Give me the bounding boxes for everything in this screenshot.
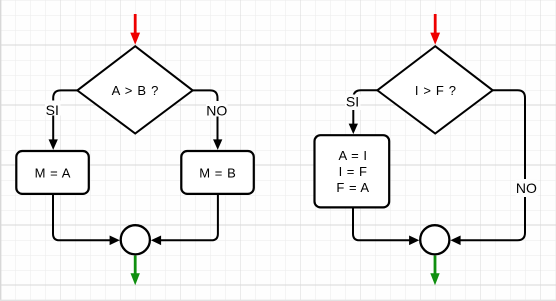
- wire: diamond left vertex to swap box: [349, 90, 378, 134]
- wire: diamond left vertex to box M=A: [49, 90, 78, 149]
- start arrow (red, right chart): [430, 14, 440, 45]
- svg-text:NO: NO: [516, 180, 537, 196]
- decision diamond "I > F ?": [377, 46, 492, 133]
- svg-text:SI: SI: [46, 102, 59, 118]
- wire: diamond right vertex to box M=B: [193, 90, 223, 149]
- process box "M = B": [181, 151, 254, 194]
- svg-text:NO: NO: [206, 102, 227, 118]
- process box "M = A": [16, 151, 89, 194]
- decision diamond "A > B ?": [77, 46, 192, 133]
- svg-text:M = A: M = A: [35, 166, 71, 181]
- svg-text:I > F ?: I > F ?: [415, 83, 457, 98]
- label NO (right): [516, 179, 538, 197]
- end arrow (green): [131, 256, 140, 286]
- wire: box M=A to junction circle: [53, 194, 120, 245]
- left edge major grid line: [0, 0, 2, 301]
- wire: box M=B to junction circle: [151, 194, 218, 245]
- svg-text:A = I: A = I: [339, 148, 368, 163]
- label SI (right): [345, 94, 361, 110]
- wire: swap box to junction circle: [353, 207, 419, 245]
- svg-text:F = A: F = A: [336, 180, 369, 195]
- label SI (left): [45, 101, 61, 118]
- label NO (left): [206, 101, 228, 118]
- junction circle (right): [420, 225, 449, 254]
- svg-text:A > B ?: A > B ?: [112, 83, 160, 98]
- svg-text:I = F: I = F: [339, 164, 368, 179]
- process box "A = I / I = F / F = A": [315, 135, 390, 207]
- wire: diamond right vertex around to junction circle (NO branch): [450, 90, 525, 245]
- end arrow (green, right chart): [430, 256, 439, 286]
- start arrow (red): [130, 14, 140, 45]
- svg-text:SI: SI: [346, 94, 359, 110]
- bottom edge grid line: [0, 299, 556, 301]
- svg-text:M = B: M = B: [199, 166, 236, 181]
- junction circle (left): [121, 225, 150, 254]
